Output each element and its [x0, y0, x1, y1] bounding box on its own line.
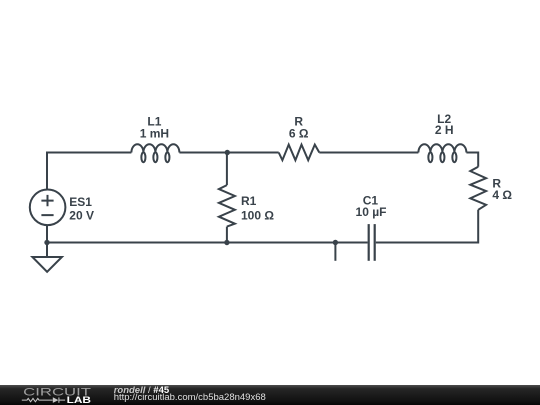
svg-text:20 V: 20 V [69, 208, 94, 222]
footer title text [114, 386, 169, 395]
footer url text [114, 393, 266, 402]
node D [44, 240, 49, 245]
resistor R1 [219, 185, 235, 227]
label R 4 ohm [492, 177, 512, 203]
wire node C to node D [47, 242, 227, 244]
node C [224, 240, 229, 245]
ground [32, 243, 62, 272]
wire stub below node B [334, 243, 336, 261]
svg-text:ES1: ES1 [69, 195, 92, 209]
svg-text:10 µF: 10 µF [356, 205, 387, 219]
footer bar [0, 385, 540, 405]
svg-text:2 H: 2 H [435, 123, 454, 137]
resistor R (4 ohm) [470, 167, 486, 210]
label R 6 ohm [289, 115, 309, 141]
voltage source ES1 [30, 190, 66, 226]
wire R4 bottom corner to C1 right plate [376, 210, 478, 243]
CircuitLab logo [20, 384, 120, 405]
node B [333, 240, 338, 245]
wire L2 to right corner down to resistor R (4 ohm) [466, 153, 478, 167]
svg-text:LAB: LAB [67, 395, 91, 405]
svg-text:R1: R1 [241, 194, 257, 208]
label R1 100 ohm [241, 194, 274, 223]
wire node A to resistor R [227, 152, 278, 154]
wire R to L2 [319, 152, 418, 154]
wire C1 left plate to node B [335, 242, 367, 244]
label L1 1 mH [140, 115, 169, 141]
label C1 10 uF [356, 194, 387, 219]
svg-text:100 Ω: 100 Ω [241, 209, 274, 223]
wire node A down to R1 [226, 153, 228, 186]
inductor L2 [418, 144, 466, 162]
label ES1 20 V [69, 195, 94, 222]
svg-text:4 Ω: 4 Ω [492, 188, 512, 202]
label L2 2 H [435, 112, 454, 137]
resistor R (6 ohm) [279, 145, 320, 161]
inductor L1 [131, 144, 179, 162]
wire R1 bottom to node C [226, 227, 228, 243]
svg-text:6 Ω: 6 Ω [289, 127, 309, 141]
node A [225, 150, 230, 155]
wire ES1 bottom lead to node D [46, 225, 48, 242]
wire top-left from ES1 to L1 [47, 153, 131, 190]
capacitor C1 [369, 224, 375, 261]
wire node B to node C [227, 242, 336, 244]
svg-text:1 mH: 1 mH [140, 127, 169, 141]
wire L1 to node A [179, 152, 227, 154]
